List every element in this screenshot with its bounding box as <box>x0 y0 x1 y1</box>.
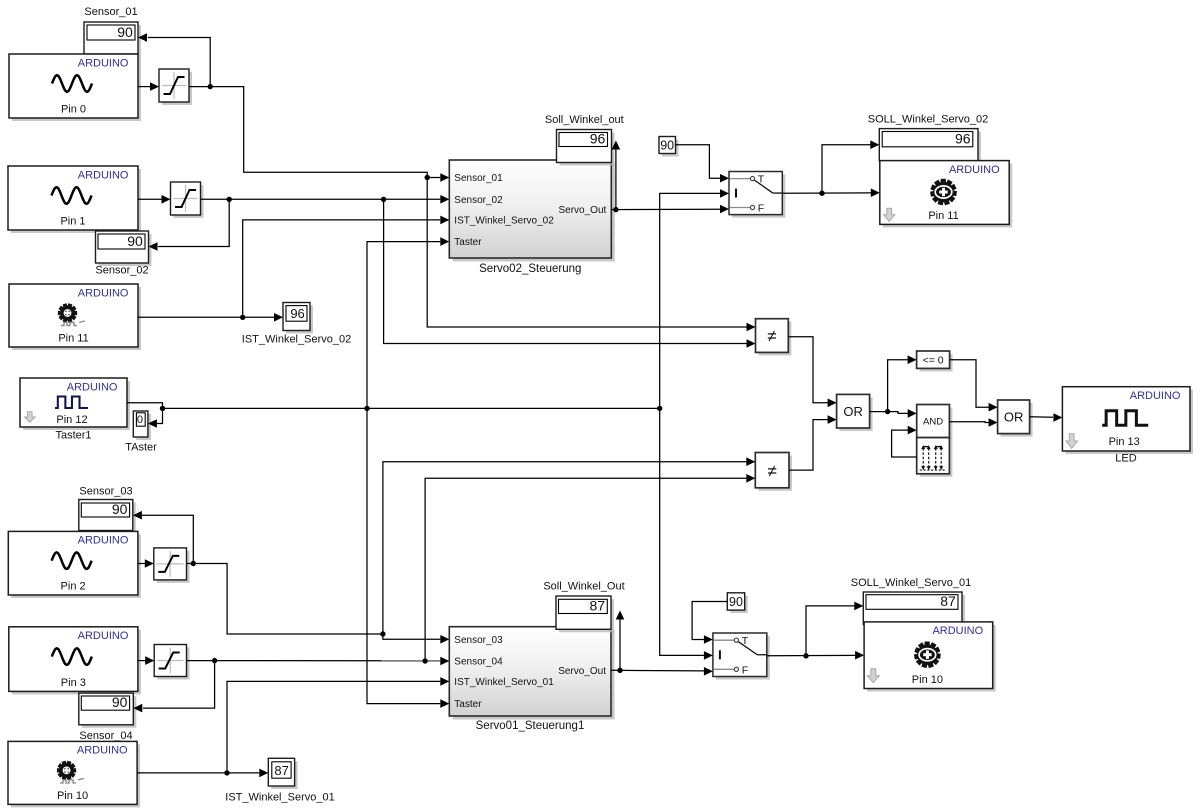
svg-text:96: 96 <box>955 131 971 147</box>
wire OR2 output to Pin13 LED block <box>1030 413 1063 422</box>
wire Pin10 input to IST_Winkel_Servo_01 display and Servo01 IST port <box>137 677 449 777</box>
relational operator not-equal NE1 <box>756 319 792 356</box>
wire hit crossing block to AND input 2 <box>892 426 917 457</box>
label Sensor_02 <box>95 265 148 277</box>
block Pin 1 analog input (ARDUINO) <box>8 166 141 233</box>
wire Servo02 Servo_Out to Soll_Winkel_out display and SW1 F port <box>611 141 729 214</box>
svg-text:96: 96 <box>290 306 304 321</box>
label SOLL_Winkel_Servo_01 <box>851 577 971 589</box>
svg-text:96: 96 <box>590 130 606 146</box>
relational operator not-equal NE2 <box>755 453 792 491</box>
svg-text:≠: ≠ <box>767 461 776 480</box>
block Pin 10 servo output (ARDUINO) <box>864 622 996 692</box>
svg-text:AND: AND <box>923 416 943 427</box>
wire S2 output net to Sensor_02 display, Servo02 Sensor_02 port and NE1 <box>149 195 756 348</box>
svg-text:ARDUINO: ARDUINO <box>78 169 129 181</box>
svg-text:ARDUINO: ARDUINO <box>1130 390 1181 402</box>
label Servo02_Steuerung <box>479 263 581 275</box>
svg-text:SOLL_Winkel_Servo_01: SOLL_Winkel_Servo_01 <box>851 577 971 589</box>
svg-text:Taster1: Taster1 <box>55 430 91 442</box>
logical operator OR1 <box>837 394 873 431</box>
constant 90 (top) <box>659 137 679 157</box>
svg-text:90: 90 <box>112 694 128 710</box>
svg-text:Servo02_Steuerung: Servo02_Steuerung <box>479 263 581 275</box>
svg-text:90: 90 <box>112 501 128 517</box>
wire AND output to OR2 input 2 <box>949 418 997 427</box>
wire OR1 output to compare block and AND input 1 <box>870 355 917 417</box>
wire NE2 to OR1 input 2 <box>789 415 837 470</box>
svg-text:90: 90 <box>729 595 743 609</box>
display Sensor_03 (value 90) <box>79 500 136 534</box>
svg-text:87: 87 <box>940 593 956 609</box>
saturation block S3 <box>154 548 190 583</box>
svg-text:TAster: TAster <box>125 441 157 453</box>
svg-text:Pin 11: Pin 11 <box>928 210 958 222</box>
svg-text:Pin 13: Pin 13 <box>1109 436 1140 448</box>
svg-text:F: F <box>742 664 748 676</box>
block Pin 3 analog input (ARDUINO) <box>9 627 141 695</box>
label TAster <box>125 441 157 453</box>
wire Pin11 input to IST_Winkel_Servo_02 display and Servo02 IST port <box>138 216 449 322</box>
svg-text:Sensor_02: Sensor_02 <box>95 265 148 277</box>
svg-text:ARDUINO: ARDUINO <box>67 381 118 393</box>
svg-text:ARDUINO: ARDUINO <box>78 535 129 547</box>
svg-text:Taster: Taster <box>454 699 482 710</box>
display SOLL_Winkel_Servo_02 (value 96) <box>879 129 981 164</box>
svg-text:Sensor_01: Sensor_01 <box>454 173 503 184</box>
svg-text:IST_Winkel_Servo_02: IST_Winkel_Servo_02 <box>242 334 351 346</box>
saturation block S2 <box>171 182 204 218</box>
svg-text:87: 87 <box>590 597 606 613</box>
label Soll_Winkel_Out <box>543 580 624 592</box>
svg-text:SOLL_Winkel_Servo_02: SOLL_Winkel_Servo_02 <box>868 114 988 126</box>
switch SW2 <box>713 633 770 680</box>
svg-text:Sensor_04: Sensor_04 <box>454 657 503 668</box>
display SOLL_Winkel_Servo_01 (value 87) <box>863 592 965 628</box>
block Pin 0 analog input (ARDUINO) <box>9 54 141 121</box>
block Pin 11 digital input gear (ARDUINO) <box>9 284 141 350</box>
display Soll_Winkel_out (value 96) <box>557 130 615 166</box>
compare to zero block <= 0 <box>917 351 953 371</box>
label Soll_Winkel_out <box>545 114 624 126</box>
svg-text:IST_Winkel_Servo_02: IST_Winkel_Servo_02 <box>454 216 554 227</box>
wire SW2 output to SOLL_Winkel_Servo_01 display and Pin10 servo block <box>767 602 864 660</box>
display TAster (value 0) <box>133 411 151 440</box>
svg-text:Pin 3: Pin 3 <box>61 677 86 689</box>
label Servo01_Steuerung1 <box>476 720 585 732</box>
svg-text:Soll_Winkel_Out: Soll_Winkel_Out <box>543 580 624 592</box>
block Pin 12 digital input (ARDUINO) <box>20 378 130 430</box>
label Sensor_01 <box>84 6 137 18</box>
svg-text:IST_Winkel_Servo_01: IST_Winkel_Servo_01 <box>225 792 334 804</box>
svg-text:F: F <box>758 202 764 214</box>
svg-text:Sensor_03: Sensor_03 <box>454 635 503 646</box>
subsystem Servo01_Steuerung1 <box>449 627 614 720</box>
svg-text:Pin 12: Pin 12 <box>56 414 87 426</box>
wire compare block to OR2 input 1 <box>950 360 998 412</box>
label IST_Winkel_Servo_02 <box>242 334 351 346</box>
svg-text:87: 87 <box>274 763 288 778</box>
subsystem Servo02_Steuerung <box>449 160 615 262</box>
label Sensor_04 <box>79 730 132 742</box>
svg-text:90: 90 <box>660 139 674 153</box>
saturation block S1 <box>159 69 192 105</box>
display Sensor_02 (value 90) <box>96 231 152 266</box>
label IST_Winkel_Servo_01 <box>225 792 334 804</box>
display Sensor_01 (value 90) <box>84 22 141 57</box>
wire constant 90 bottom to SW2 T port <box>692 602 727 644</box>
svg-text:90: 90 <box>127 233 143 249</box>
svg-text:Servo_Out: Servo_Out <box>558 205 606 216</box>
logical operator OR2 <box>998 400 1033 437</box>
svg-text:Sensor_01: Sensor_01 <box>84 6 137 18</box>
wire Taster net: Pin12 to TAster display, Servo blocks and switches <box>127 189 729 708</box>
display Soll_Winkel_Out (value 87) <box>556 596 614 632</box>
wire S4 output net to Sensor_04 display, Servo01 Sensor_04 port and NE2 <box>133 474 755 712</box>
svg-text:Pin 11: Pin 11 <box>58 333 88 345</box>
block Pin 11 servo output (ARDUINO) <box>880 161 1012 228</box>
svg-text:Pin 10: Pin 10 <box>57 790 88 802</box>
svg-text:Servo01_Steuerung1: Servo01_Steuerung1 <box>476 720 585 732</box>
wire Pin2 to S3 <box>138 559 154 568</box>
display IST_Winkel_Servo_01 (value 87) <box>268 758 297 789</box>
saturation block S4 <box>154 645 189 680</box>
logical operator AND <box>917 405 953 441</box>
svg-text:Taster: Taster <box>454 237 482 248</box>
label LED <box>1115 453 1136 465</box>
svg-text:<= 0: <= 0 <box>923 354 944 366</box>
svg-text:90: 90 <box>117 24 133 40</box>
svg-text:Pin 2: Pin 2 <box>61 581 86 593</box>
block Pin 2 analog input (ARDUINO) <box>8 531 141 598</box>
switch SW1 <box>729 172 785 218</box>
wire S1 output net to Sensor_01 display, Servo02 Sensor_01 port and NE1 <box>138 33 756 331</box>
svg-text:Sensor_02: Sensor_02 <box>454 195 503 206</box>
svg-text:≠: ≠ <box>767 327 776 346</box>
svg-text:OR: OR <box>1004 409 1024 424</box>
wire NE1 to OR1 input 1 <box>788 337 836 407</box>
wire constant 90 top to SW1 T port <box>676 145 730 183</box>
wire Pin1 to S2 <box>138 195 171 204</box>
svg-text:Servo_Out: Servo_Out <box>558 666 606 677</box>
constant 90 (bottom) <box>727 593 747 613</box>
svg-text:Soll_Winkel_out: Soll_Winkel_out <box>545 114 624 126</box>
svg-text:Sensor_03: Sensor_03 <box>79 486 132 498</box>
wire Pin3 to S4 <box>138 656 154 665</box>
label Sensor_03 <box>79 486 132 498</box>
svg-text:ARDUINO: ARDUINO <box>77 745 128 757</box>
wire S3 output net to Sensor_03 display, Servo01 Sensor_03 port and NE2 <box>133 457 755 643</box>
display Sensor_04 (value 90) <box>79 693 137 728</box>
svg-text:ARDUINO: ARDUINO <box>932 625 983 637</box>
block Pin 13 digital output LED (ARDUINO) <box>1062 387 1193 454</box>
display IST_Winkel_Servo_02 (value 96) <box>283 303 313 334</box>
svg-text:IST_Winkel_Servo_01: IST_Winkel_Servo_01 <box>454 677 554 688</box>
svg-text:ARDUINO: ARDUINO <box>949 164 1000 176</box>
svg-text:0: 0 <box>137 414 143 426</box>
label Taster1 <box>55 430 91 442</box>
svg-text:OR: OR <box>843 404 863 419</box>
svg-text:Pin 1: Pin 1 <box>60 216 85 228</box>
svg-text:ARDUINO: ARDUINO <box>78 57 129 69</box>
wire Pin0 to S1 <box>138 82 159 91</box>
svg-text:ARDUINO: ARDUINO <box>78 287 129 299</box>
svg-text:ARDUINO: ARDUINO <box>78 630 129 642</box>
label SOLL_Winkel_Servo_02 <box>868 114 988 126</box>
wire SW1 output to SOLL_Winkel_Servo_02 display and Pin11 servo block <box>782 140 880 197</box>
hit crossing block <box>917 438 953 477</box>
svg-text:Pin 0: Pin 0 <box>61 104 86 116</box>
svg-text:Sensor_04: Sensor_04 <box>79 730 132 742</box>
svg-text:Pin 10: Pin 10 <box>912 674 943 686</box>
wire Servo01 Servo_Out to Soll_Winkel_Out display and SW2 F port <box>611 611 713 676</box>
block Pin 10 digital input gear (ARDUINO) <box>8 741 140 807</box>
svg-text:LED: LED <box>1115 453 1136 465</box>
